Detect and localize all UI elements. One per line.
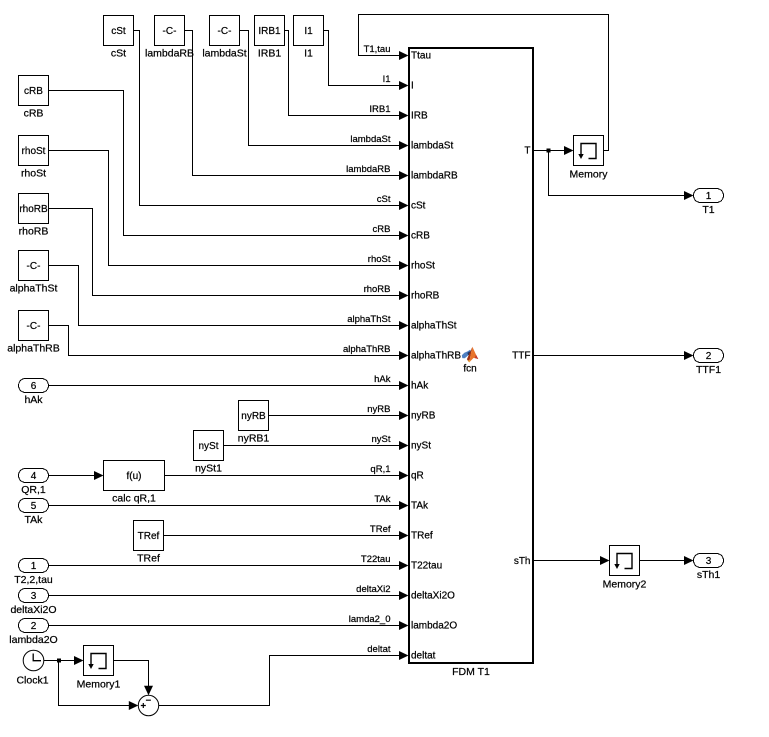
svg-text:I1: I1 <box>383 74 391 85</box>
svg-text:Clock1: Clock1 <box>16 675 48 687</box>
svg-text:deltaXi2O: deltaXi2O <box>411 591 455 602</box>
svg-text:lambdaSt: lambdaSt <box>411 141 453 152</box>
sum block Sum <box>138 695 158 715</box>
svg-text:cRB: cRB <box>373 224 391 235</box>
svg-text:TRef: TRef <box>138 531 160 542</box>
wire TRef to FDM <box>164 535 400 537</box>
signal label cSt <box>377 194 391 205</box>
svg-text:rhoRB: rhoRB <box>19 226 49 238</box>
svg-text:cSt: cSt <box>111 26 126 37</box>
FDM T1 input port 14 nySt <box>399 441 431 452</box>
signal label IRB1 <box>369 104 390 115</box>
svg-text:sTh1: sTh1 <box>697 569 721 581</box>
svg-text:I: I <box>411 81 414 92</box>
wire nyRB to FDM <box>269 415 400 417</box>
svg-text:lambda2O: lambda2O <box>9 634 57 646</box>
signal label alphaThRB <box>343 344 391 355</box>
constant block I1 <box>294 16 324 60</box>
svg-text:lambda2O: lambda2O <box>411 621 457 632</box>
svg-text:4: 4 <box>31 471 37 482</box>
svg-text:TRef: TRef <box>370 524 391 535</box>
FDM T1 input port 13 nyRB <box>399 411 436 422</box>
svg-text:rhoSt: rhoSt <box>411 261 435 272</box>
FDM T1 input port 7 cRB <box>399 231 430 242</box>
FDM T1 input port 21 deltat <box>399 651 436 662</box>
svg-text:alphaThRB: alphaThRB <box>7 343 60 355</box>
FDM T1 input port 12 hAk <box>399 381 429 392</box>
svg-text:nySt: nySt <box>198 441 218 452</box>
svg-text:TAk: TAk <box>25 514 44 526</box>
svg-text:rhoRB: rhoRB <box>364 284 391 295</box>
wire Memory1 to Sum minus <box>114 661 154 696</box>
signal label cRB <box>373 224 391 235</box>
constant block lambdaSt <box>202 16 246 60</box>
svg-text:2: 2 <box>31 621 37 632</box>
svg-text:f(u): f(u) <box>127 471 142 482</box>
constant block nyRB1 <box>238 401 270 445</box>
signal label rhoRB <box>364 284 391 295</box>
svg-text:alphaThRB: alphaThRB <box>411 351 461 362</box>
svg-text:IRB1: IRB1 <box>258 48 282 60</box>
svg-text:nySt: nySt <box>411 441 431 452</box>
svg-text:-C-: -C- <box>27 261 41 272</box>
output port 2 TTF1 <box>694 349 724 377</box>
svg-text:lambdaRB: lambdaRB <box>411 171 458 182</box>
FDM T1 input port 11 alphaThRB <box>399 351 461 362</box>
wire cRB to FDM <box>49 91 400 236</box>
FDM T1 output label sTh <box>514 556 531 567</box>
svg-text:lamda2_0: lamda2_0 <box>349 614 391 625</box>
svg-text:Memory: Memory <box>570 169 609 181</box>
svg-text:3: 3 <box>31 591 37 602</box>
signal label T22tau <box>361 554 391 565</box>
output port 1 T1 <box>694 189 724 217</box>
constant block cSt <box>104 16 134 60</box>
svg-text:T1: T1 <box>702 204 714 216</box>
wire T22tau to FDM <box>49 565 400 567</box>
signal label TRef <box>370 524 391 535</box>
wire alphaThSt to FDM <box>49 266 400 326</box>
svg-text:nyRB: nyRB <box>367 404 390 415</box>
input port 3 deltaXi2O <box>10 589 56 617</box>
svg-text:-C-: -C- <box>27 321 41 332</box>
FDM T1 input port 8 rhoSt <box>399 261 435 272</box>
svg-text:T: T <box>524 146 530 157</box>
FDM T1 input port 5 lambdaRB <box>399 171 458 182</box>
svg-text:nySt: nySt <box>371 434 390 445</box>
constant block cRB <box>19 76 49 120</box>
wire T branch to out T1 <box>549 151 694 201</box>
constant block lambdaRB <box>145 16 194 60</box>
wire cSt to FDM <box>134 31 400 206</box>
svg-text:IRB1: IRB1 <box>369 104 390 115</box>
wire lambdaSt to FDM <box>240 31 400 146</box>
FDM T1 input port 2 I <box>399 81 414 92</box>
svg-text:I1: I1 <box>304 26 313 37</box>
wire Sum to FDM deltat <box>159 656 399 706</box>
svg-text:TRef: TRef <box>411 531 433 542</box>
svg-text:alphaThSt: alphaThSt <box>411 321 457 332</box>
memory block Memory1 <box>77 646 121 691</box>
wire deltaXi2O to FDM <box>49 595 400 597</box>
constant block alphaThSt <box>10 251 58 295</box>
wire FDM TTF to out TTF1 <box>533 351 694 360</box>
svg-text:alphaThSt: alphaThSt <box>347 314 391 325</box>
FDM T1 input port 9 rhoRB <box>399 291 440 302</box>
svg-text:cSt: cSt <box>111 48 126 60</box>
subsystem block FDM T1 <box>409 48 533 678</box>
svg-text:TTF: TTF <box>512 351 530 362</box>
signal label nyRB <box>367 404 390 415</box>
FDM T1 output label T <box>524 146 530 157</box>
FDM T1 input port 18 T22tau <box>399 561 442 572</box>
svg-text:TTF1: TTF1 <box>696 364 721 376</box>
memory block Memory2 <box>603 546 647 591</box>
output port 3 sTh1 <box>694 554 724 582</box>
svg-text:cSt: cSt <box>411 201 426 212</box>
wire lambdaRB to FDM <box>185 31 400 176</box>
svg-text:Memory1: Memory1 <box>77 679 121 691</box>
constant block alphaThRB <box>7 311 60 355</box>
svg-text:-C-: -C- <box>218 26 232 37</box>
FDM T1 input port 19 deltaXi2O <box>399 591 455 602</box>
svg-text:cRB: cRB <box>24 108 44 120</box>
wire FDM sTh to Memory2 <box>533 556 610 565</box>
svg-text:calc qR,1: calc qR,1 <box>112 493 156 505</box>
signal label deltaXi2 <box>356 584 390 595</box>
junction dot T branch <box>547 149 551 153</box>
FDM T1 output label TTF <box>512 351 530 362</box>
signal label lambdaSt <box>350 134 390 145</box>
wire hAk to FDM <box>49 385 400 387</box>
wire Memory2 to out sTh1 <box>640 556 694 565</box>
svg-text:TAk: TAk <box>374 494 390 505</box>
svg-text:3: 3 <box>706 556 712 567</box>
svg-text:hAk: hAk <box>24 394 43 406</box>
svg-text:lambdaRB: lambdaRB <box>145 48 194 60</box>
svg-text:I1: I1 <box>304 48 313 60</box>
svg-text:rhoSt: rhoSt <box>22 146 46 157</box>
svg-text:IRB: IRB <box>411 111 428 122</box>
input port 6 hAk <box>19 379 49 407</box>
svg-text:qR,1: qR,1 <box>370 464 390 475</box>
FDM T1 input port 4 lambdaSt <box>399 141 453 152</box>
svg-text:TAk: TAk <box>411 501 429 512</box>
svg-text:rhoSt: rhoSt <box>21 168 46 180</box>
wire rhoSt to FDM <box>49 151 400 266</box>
svg-text:lambdaSt: lambdaSt <box>202 48 246 60</box>
FDM T1 input port 17 TRef <box>399 531 433 542</box>
FDM T1 input port 10 alphaThSt <box>399 321 457 332</box>
svg-text:1: 1 <box>706 191 712 202</box>
signal label T1,tau <box>364 44 391 55</box>
svg-text:qR: qR <box>411 471 424 482</box>
FDM T1 input port 16 TAk <box>399 501 429 512</box>
FDM T1 input port 15 qR <box>399 471 424 482</box>
svg-text:lambdaRB: lambdaRB <box>346 164 390 175</box>
svg-text:5: 5 <box>31 501 37 512</box>
FDM T1 input port 20 lambda2O <box>399 621 457 632</box>
svg-text:QR,1: QR,1 <box>21 484 46 496</box>
signal label lambdaRB <box>346 164 390 175</box>
svg-text:1: 1 <box>31 561 37 572</box>
svg-text:hAk: hAk <box>411 381 429 392</box>
wire clock branch to Sum plus <box>59 661 139 711</box>
svg-text:deltat: deltat <box>411 651 436 662</box>
wire Memory feedback loop to Ttau <box>359 15 609 151</box>
input port 5 TAk <box>19 499 49 527</box>
wire rhoRB to FDM <box>49 209 400 296</box>
svg-text:rhoSt: rhoSt <box>368 254 391 265</box>
wire I1 to FDM <box>324 31 400 86</box>
constant block nySt1 <box>194 431 224 475</box>
signal label hAk <box>374 374 391 385</box>
wire Clock1 to Memory1 <box>44 656 84 665</box>
svg-text:sTh: sTh <box>514 556 531 567</box>
wire port4 to Fcn <box>49 471 104 480</box>
FDM T1 input port 6 cSt <box>399 201 426 212</box>
fcn MATLAB logo icon <box>462 347 479 363</box>
svg-text:cSt: cSt <box>377 194 391 205</box>
svg-text:T1,tau: T1,tau <box>364 44 391 55</box>
wire nySt to FDM <box>224 445 400 447</box>
svg-text:TRef: TRef <box>137 553 160 565</box>
svg-text:FDM T1: FDM T1 <box>452 666 490 678</box>
svg-text:6: 6 <box>31 381 37 392</box>
signal label lamda2_0 <box>349 614 391 625</box>
FDM T1 input port 1 Ttau <box>399 51 431 62</box>
svg-text:hAk: hAk <box>374 374 391 385</box>
svg-text:Ttau: Ttau <box>411 51 431 62</box>
junction dot clock branch <box>57 659 61 663</box>
constant block TRef <box>134 521 164 565</box>
wire Fcn to FDM qR <box>165 475 400 477</box>
svg-text:deltat: deltat <box>367 644 391 655</box>
signal label alphaThSt <box>347 314 391 325</box>
wire TAk to FDM <box>49 505 400 507</box>
wire alphaThRB to FDM <box>49 326 400 356</box>
signal label deltat <box>367 644 391 655</box>
svg-text:cRB: cRB <box>411 231 430 242</box>
wire FDM T to Memory <box>533 146 574 155</box>
fcn label <box>463 364 476 375</box>
constant block rhoSt <box>19 136 49 180</box>
FDM T1 input port 3 IRB <box>399 111 428 122</box>
svg-text:nyRB1: nyRB1 <box>238 433 270 445</box>
svg-text:rhoRB: rhoRB <box>411 291 440 302</box>
clock block Clock1 <box>16 650 48 686</box>
memory block Memory <box>570 136 609 181</box>
svg-text:T2,2,tau: T2,2,tau <box>14 574 53 586</box>
svg-text:lambdaSt: lambdaSt <box>350 134 390 145</box>
signal label rhoSt <box>368 254 391 265</box>
svg-text:alphaThSt: alphaThSt <box>10 283 58 295</box>
signal label nySt <box>371 434 390 445</box>
signal label I1 <box>383 74 391 85</box>
svg-text:nySt1: nySt1 <box>195 463 222 475</box>
svg-text:-C-: -C- <box>163 26 177 37</box>
svg-text:cRB: cRB <box>24 86 43 97</box>
svg-text:T22tau: T22tau <box>361 554 391 565</box>
wire IRB1 to FDM <box>285 31 400 116</box>
svg-text:deltaXi2O: deltaXi2O <box>10 604 56 616</box>
svg-text:IRB1: IRB1 <box>258 26 281 37</box>
input port 4 QR,1 <box>19 469 49 497</box>
wire lambda2O to FDM <box>49 625 400 627</box>
svg-text:2: 2 <box>706 351 712 362</box>
svg-text:rhoRB: rhoRB <box>19 204 48 215</box>
svg-text:alphaThRB: alphaThRB <box>343 344 391 355</box>
svg-text:nyRB: nyRB <box>411 411 436 422</box>
svg-text:deltaXi2: deltaXi2 <box>356 584 390 595</box>
svg-text:nyRB: nyRB <box>241 411 266 422</box>
constant block rhoRB <box>19 194 49 238</box>
input port 2 lambda2O <box>9 619 57 647</box>
svg-text:fcn: fcn <box>463 364 476 375</box>
signal label qR,1 <box>370 464 390 475</box>
svg-text:Memory2: Memory2 <box>603 579 647 591</box>
constant block IRB1 <box>255 16 285 60</box>
signal label TAk <box>374 494 390 505</box>
Fcn block calc qR,1 <box>104 461 165 505</box>
input port 1 T2,2,tau <box>14 559 53 587</box>
svg-text:T22tau: T22tau <box>411 561 442 572</box>
